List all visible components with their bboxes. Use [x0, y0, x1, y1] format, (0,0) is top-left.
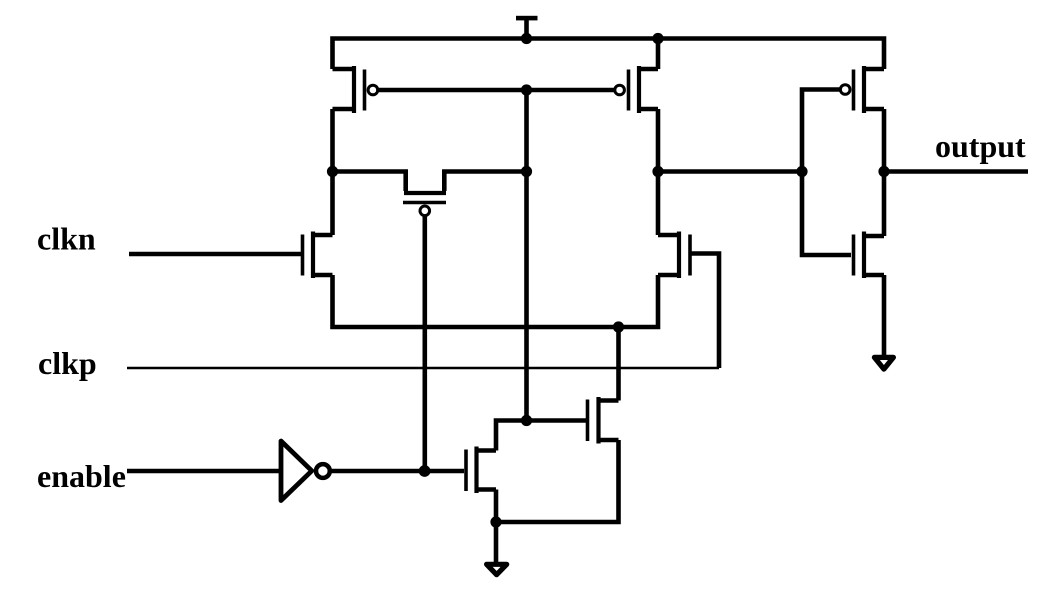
wire: M8 drain / M9 gate node row — [496, 421, 586, 451]
wire: latch gate vertical down to bottom NMOS node — [524, 90, 529, 421]
nmos M4 (clkn input NMOS) — [303, 232, 333, 279]
nmos M6 (output inverter NMOS) — [854, 232, 885, 279]
wire: M9 drain vertical to bottom rail — [616, 327, 621, 401]
wire: VDD top rail — [333, 39, 885, 70]
junction dot ground node — [490, 516, 501, 527]
wire: right latch rail M2 drain down to M5 drain — [656, 109, 661, 235]
wire: M6 source to ground — [882, 275, 887, 356]
wire: output inverter input vertical M3 gate to M6 gate — [802, 90, 851, 256]
nmos M5 (clkp input NMOS) — [658, 232, 690, 279]
junction dot latch vertical / M8 drain node — [521, 415, 532, 426]
wire: bottom rail (M4/M5 common source) — [333, 275, 659, 327]
wire: node B row to output inverter input — [658, 169, 802, 174]
wire: M2 source drop from top rail — [656, 39, 661, 70]
wire: clkn input line — [129, 252, 301, 257]
svg-text:clkp: clkp — [38, 345, 97, 381]
junction dot top rail / M2 source — [652, 33, 663, 44]
pmos M2 (right cross-coupled PMOS) — [615, 66, 658, 113]
wire: M5 gate to clkp line — [692, 254, 720, 369]
pmos M3 (output inverter PMOS) — [840, 66, 884, 113]
junction dot left rail / node A row — [327, 166, 338, 177]
svg-text:output: output — [935, 128, 1026, 164]
svg-text:enable: enable — [37, 458, 126, 494]
inverter U1 (enable inverter) — [281, 441, 330, 501]
wire: output inverter drain rail — [882, 109, 887, 236]
wire: enable input line — [127, 469, 281, 474]
junction dot inverter output / pass gate vertical — [419, 465, 431, 477]
junction dot node B row / inverter input vertical — [796, 166, 807, 177]
ground symbol (bottom) — [487, 564, 507, 574]
nmos M8 (enable NMOS) — [466, 447, 496, 494]
junction dot output rail — [878, 166, 889, 177]
nmos M9 (tail NMOS) — [588, 397, 619, 444]
node A row with pass transistor leads — [333, 172, 406, 192]
junction dot gate row / latch vertical — [521, 84, 532, 95]
wire: output line — [884, 169, 1028, 174]
wire: left rail M1 drain down to M4 drain — [330, 109, 335, 235]
pmos MP pass transistor (horizontal) — [403, 193, 446, 216]
wire: pass transistor gate vertical to enable line — [422, 216, 427, 471]
wire: M8 source down — [494, 490, 499, 523]
junction dot right latch rail / node B row — [652, 166, 663, 177]
junction dot VDD to top rail — [521, 33, 532, 44]
wire: ground stem — [494, 522, 499, 562]
VDD supply symbol — [516, 16, 538, 37]
svg-text:clkn: clkn — [37, 221, 96, 257]
ground symbol (output inverter) — [874, 357, 893, 369]
wire: inverter output to M8 gate — [331, 469, 465, 474]
junction dot bottom rail / M9 drain — [613, 321, 624, 332]
junction dot node A row / latch vertical — [521, 166, 532, 177]
wire: clkp input line — [127, 367, 719, 369]
wire: cross-coupled gate row M1-M2 — [378, 88, 615, 93]
wire: M9 source loop to ground node — [496, 440, 619, 522]
pmos M1 (left cross-coupled PMOS) — [333, 66, 378, 113]
